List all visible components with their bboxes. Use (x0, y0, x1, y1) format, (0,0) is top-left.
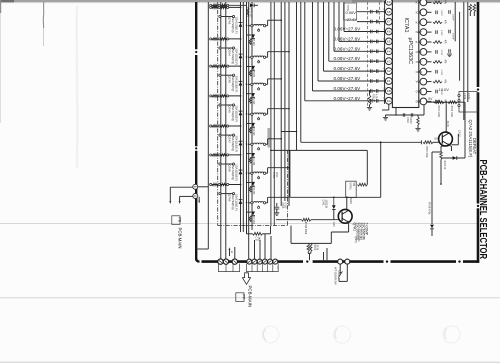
tuning stage Q7A9 (210, 183, 289, 225)
svg-text:C7A2: C7A2 (406, 117, 409, 123)
svg-text:CUP: CUP (416, 60, 422, 64)
svg-text:(DVP): (DVP) (354, 237, 356, 243)
op-amp IC U7A1 uPC1363C body (392, 0, 418, 108)
svg-text:CDN: CDN (416, 70, 422, 74)
wire net to IC pin at y=51.3 (333, 2, 335, 51)
svg-text:0.06V~27.6V: 0.06V~27.6V (334, 96, 362, 101)
scan fold line lower (0, 297, 500, 299)
tuning stage top partial (210, 3, 258, 18)
svg-text:2SA1115(E.F): 2SA1115(E.F) (234, 164, 238, 181)
wire net to IC pin at y=100.8 (304, 2, 306, 101)
tuning stage Q7A8 (210, 154, 290, 196)
svg-text:1SS133: 1SS133 (325, 200, 328, 209)
svg-text:K.B: K.B (416, 20, 421, 24)
wire rail x248.7 (248, 2, 250, 259)
punch hole left (262, 326, 279, 343)
wire net to IC pin at y=61.2 (328, 2, 330, 61)
resistor to VR (358, 183, 368, 186)
resistor R7A 4.7k (369, 90, 371, 95)
svg-text:PCB-MAIN: PCB-MAIN (247, 286, 252, 307)
Q7A1 collector node (346, 197, 348, 209)
svg-text:0.022: 0.022 (284, 203, 286, 209)
connector pins group A (218, 259, 223, 264)
svg-text:2SA1115(E.F): 2SA1115(E.F) (234, 76, 238, 93)
PCB bottom bus thick line (202, 260, 304, 263)
scan top edge band (0, 0, 500, 2)
scratch artifact (42, 2, 45, 28)
svg-text:KB: KB (387, 89, 391, 93)
decoupling capacitors at IC pins (370, 30, 372, 34)
svg-text:S7B1: S7B1 (337, 270, 340, 277)
scan bottom edge (0, 362, 500, 363)
svg-text:1000P: 1000P (409, 117, 411, 124)
svg-text:R13 226: R13 226 (252, 215, 254, 224)
resistor below IC (417, 117, 419, 125)
wire rail x243.3 (242, 2, 244, 232)
svg-text:K7: K7 (387, 20, 391, 24)
svg-text:P8: P8 (178, 217, 182, 222)
resistor C.B 1k (246, 226, 248, 234)
svg-text:4.7k: 4.7k (374, 94, 377, 99)
svg-text:0.022: 0.022 (440, 30, 442, 36)
wire rail x274.3 (273, 2, 275, 226)
svg-text:2SA733(P.Q): 2SA733(P.Q) (231, 136, 235, 152)
switch S7B1 pins (338, 259, 343, 264)
svg-text:2SA1115(E.F): 2SA1115(E.F) (234, 194, 238, 211)
tuning stage Q7A6 (210, 95, 290, 137)
svg-text:0.06V~27.6V: 0.06V~27.6V (334, 46, 362, 51)
svg-text:0.06V~27.6V: 0.06V~27.6V (334, 27, 362, 32)
svg-text:R9 226: R9 226 (252, 97, 254, 105)
right side component column (433, 0, 446, 104)
sub box top (344, 3, 357, 20)
corner wire x289.9 (289, 150, 291, 197)
tuning stage Q7A7 (210, 125, 282, 166)
P7 label box (236, 293, 244, 302)
collector wire (445, 102, 447, 133)
P8 label box (172, 216, 180, 225)
svg-text:R7A1: R7A1 (372, 94, 375, 101)
transistor Q7A2 (439, 132, 453, 146)
Q7A2 base resistor (423, 141, 433, 144)
svg-text:R7 226: R7 226 (252, 38, 254, 46)
scan left edge (0, 0, 1, 13)
connector drop wires (234, 247, 236, 259)
svg-text:IC7A1: IC7A1 (403, 18, 409, 33)
svg-text:DEP: DEP (416, 100, 422, 104)
shield border dash-dot right (287, 150, 289, 226)
svg-text:0.06V~27.6V: 0.06V~27.6V (334, 86, 362, 91)
svg-text:0.022: 0.022 (440, 10, 442, 16)
connector box right (459, 92, 477, 113)
svg-text:R11 226: R11 226 (252, 157, 254, 166)
vertical resistors right top (469, 4, 472, 12)
wire rail x252 (251, 2, 253, 230)
svg-text:~27.6V: ~27.6V (345, 17, 358, 22)
svg-text:D7A1: D7A1 (322, 200, 325, 207)
wire rail x240.5 (240, 2, 242, 232)
svg-text:K9: K9 (387, 0, 391, 4)
svg-text:2SA733(P.Q): 2SA733(P.Q) (231, 194, 235, 210)
svg-text:Vcc: Vcc (416, 80, 421, 84)
svg-text:L7A1: L7A1 (272, 172, 275, 178)
svg-text:K3: K3 (387, 59, 391, 63)
svg-text:13.0V: 13.0V (446, 121, 449, 128)
connector housing A (218, 264, 239, 272)
svg-text:0V: 0V (428, 97, 433, 101)
transistor Q7A1 (338, 209, 352, 223)
svg-text:L701: L701 (357, 237, 359, 243)
scan smear band (267, 128, 270, 148)
wire x432 branch (431, 152, 433, 224)
wires above bus (323, 252, 325, 260)
tuning stage Q7A5 (210, 65, 282, 105)
svg-text:PCB-MAIN: PCB-MAIN (177, 228, 182, 249)
svg-text:Q7A9: Q7A9 (228, 194, 232, 202)
svg-text:K2: K2 (387, 69, 391, 73)
wire rail x220.8 (220, 2, 222, 259)
PCB left border thick line (195, 2, 197, 49)
IC right pin circles (420, 0, 427, 6)
svg-text:AFT-DOOR SW: AFT-DOOR SW (334, 267, 337, 285)
junction vertical x380.7 (380, 142, 382, 197)
svg-text:0.022: 0.022 (440, 70, 442, 76)
svg-text:C7A9: C7A9 (281, 203, 284, 209)
wire net to IC pin at y=90.9 (312, 2, 314, 91)
VR7A1 50k box (346, 181, 357, 197)
shield border dash-dot left (217, 2, 219, 226)
wire net to IC pin at y=71.1 (323, 2, 325, 71)
svg-text:OSC: OSC (275, 172, 278, 178)
svg-text:2SA1115(E.F): 2SA1115(E.F) (234, 105, 238, 122)
connector pins group B (247, 259, 252, 264)
IC bottom pin wires (388, 104, 390, 110)
svg-text:VR7A1: VR7A1 (349, 183, 352, 191)
svg-text:2SA1115(E.F): 2SA1115(E.F) (234, 48, 238, 65)
capacitor 0.022 with ground (276, 203, 278, 207)
svg-text:P7: P7 (242, 294, 246, 299)
svg-text:1.6V: 1.6V (332, 222, 335, 227)
svg-text:1000P: 1000P (452, 33, 454, 40)
svg-text:R12 226: R12 226 (252, 186, 254, 195)
svg-text:R7A8 330k: R7A8 330k (304, 222, 307, 235)
wire rail x270.9 (270, 2, 272, 226)
svg-text:1000P: 1000P (452, 14, 454, 21)
svg-text:R7A5 330k: R7A5 330k (425, 146, 428, 158)
svg-text:PCB-CHANNEL SELECTOR: PCB-CHANNEL SELECTOR (477, 160, 488, 260)
punch hole middle (333, 326, 350, 343)
connector pin P8-2 (193, 194, 198, 199)
svg-text:R7A2: R7A2 (313, 245, 316, 251)
svg-text:NAP: NAP (416, 30, 422, 34)
svg-text:0.06V~27.6V: 0.06V~27.6V (334, 76, 362, 81)
svg-text:K6: K6 (387, 30, 391, 34)
svg-text:K8: K8 (387, 10, 391, 14)
wire rail x246.5 (246, 2, 248, 234)
svg-text:13.0V: 13.0V (467, 93, 470, 100)
diode D7A3 (430, 225, 434, 229)
wire link cells to fan (281, 131, 296, 133)
svg-text:K4: K4 (387, 49, 391, 53)
svg-text:R8 226: R8 226 (252, 70, 254, 78)
13.0V rail right (464, 102, 466, 158)
wire rail x225.8 (225, 2, 227, 259)
wire rail x281.2 (280, 2, 282, 206)
svg-text:µPC1363C: µPC1363C (407, 38, 413, 65)
svg-text:0.06V~27.6V: 0.06V~27.6V (334, 56, 362, 61)
svg-text:0V: 0V (434, 137, 438, 141)
tuning stage Q7A3 (210, 6, 282, 46)
svg-text:B: B (231, 250, 233, 254)
svg-text:R10 226: R10 226 (252, 127, 254, 136)
svg-text:R7A9 470k: R7A9 470k (428, 202, 431, 215)
connector pin P8-1 (193, 184, 198, 189)
Q7A1 emitter network (348, 222, 350, 232)
wire net to IC pin at y=81 (317, 2, 319, 81)
svg-text:K5: K5 (387, 40, 391, 44)
svg-text:2SA1115(E.F): 2SA1115(E.F) (234, 136, 238, 153)
switch S7B1 contacts (339, 264, 341, 272)
svg-text:K.30: K.30 (416, 40, 422, 44)
svg-text:KA: KA (387, 99, 391, 103)
svg-text:CN7A: CN7A (463, 93, 466, 100)
svg-text:R7A1 226: R7A1 226 (249, 8, 252, 19)
svg-text:K.4: K.4 (416, 1, 421, 5)
svg-text:OSC: OSC (416, 50, 422, 54)
caps cluster right (448, 10, 450, 14)
svg-text:0.022: 0.022 (440, 50, 442, 56)
connector housing B (247, 264, 279, 272)
shield dashed line x379.5 (379, 2, 381, 26)
wire net Q7A1 feed (296, 2, 298, 150)
scan fold line upper (0, 222, 478, 224)
svg-text:K1: K1 (387, 79, 391, 83)
svg-text:IC.B: IC.B (416, 10, 422, 14)
arrow to PCB-MAIN (242, 273, 250, 285)
svg-text:Q7A7: Q7A7 (228, 136, 232, 144)
wire net to IC pin at y=31.5 (343, 2, 345, 32)
punch hole right (443, 326, 460, 343)
svg-text:R7A6 1k: R7A6 1k (443, 161, 446, 171)
tuning stage Q7A4 (210, 38, 290, 78)
wire net Q7A2 base (300, 2, 302, 142)
svg-text:2SA1115(E.F): 2SA1115(E.F) (234, 17, 238, 34)
IC left pin circles (385, 0, 392, 5)
wire net to IC pin at y=41.4 (338, 2, 340, 41)
svg-text:0.06V~27.6V: 0.06V~27.6V (334, 66, 362, 71)
wire rail x284.9 (284, 2, 286, 201)
svg-text:T-COMP: T-COMP (365, 223, 369, 235)
right column link wires (454, 2, 456, 41)
svg-text:13.0V: 13.0V (439, 87, 450, 92)
svg-text:25.8k: 25.8k (316, 245, 318, 251)
wire rail x208 (207, 2, 209, 187)
Q7A1 base resistor 330k (276, 219, 302, 221)
P8 harness wires (170, 186, 193, 188)
wire rail x289 (288, 2, 290, 206)
svg-text:TP7A1: TP7A1 (346, 5, 349, 13)
svg-text:GND: GND (416, 90, 422, 94)
svg-text:R7A3 100k: R7A3 100k (437, 106, 440, 118)
svg-text:R7A4 100k: R7A4 100k (450, 106, 453, 118)
shield dashed line x367.6 (367, 2, 369, 108)
svg-text:DEFEAT: DEFEAT (472, 138, 477, 155)
arrow stub above bus (229, 250, 231, 256)
pin collector rail x384.6 (384, 2, 386, 104)
Vcc row resistors (427, 101, 466, 103)
shield border dash-dot bottom (218, 225, 288, 227)
diode D7A1 (333, 197, 335, 205)
Q7A2 emitter network (449, 145, 452, 147)
PCB right border thick line (477, 2, 480, 87)
svg-text:0.0V: 0.0V (349, 198, 353, 204)
svg-text:0.06V~27.6V: 0.06V~27.6V (334, 36, 362, 41)
